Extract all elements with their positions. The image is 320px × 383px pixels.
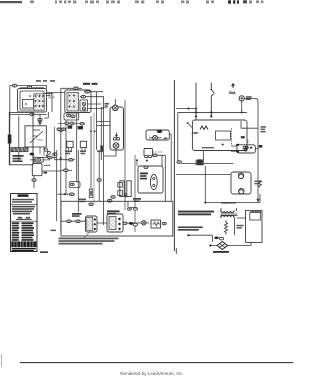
lock unit box bbox=[246, 210, 263, 242]
relay aux marks bbox=[44, 165, 50, 174]
legend title bbox=[18, 194, 29, 196]
oven box inner label bbox=[13, 155, 24, 162]
left return wire bbox=[177, 112, 179, 161]
note pointer line bbox=[84, 233, 89, 238]
wire between switches bbox=[47, 92, 65, 94]
terminal P26 bbox=[123, 222, 166, 226]
sensor drop wire bbox=[196, 116, 204, 164]
junction J10 bbox=[209, 244, 211, 246]
motor M3 armature bbox=[150, 174, 157, 189]
harness wire 3 bbox=[65, 120, 67, 194]
neutral bottom wire bbox=[189, 235, 213, 242]
bake circuit wire bbox=[241, 121, 258, 128]
terminal P3 on lower wire bbox=[10, 113, 47, 116]
fuse rating 30A bbox=[229, 84, 236, 95]
terminal P5 bbox=[84, 90, 103, 93]
switch S2 contacts bbox=[69, 95, 75, 108]
fuse F1 bbox=[89, 189, 92, 197]
resistor R2 label bbox=[237, 225, 244, 229]
harness wire 2 bbox=[59, 88, 63, 232]
crossover wire B bbox=[61, 169, 72, 171]
terminal P2 bbox=[28, 86, 32, 88]
junction J9 bbox=[187, 234, 189, 236]
terminal P21 bbox=[153, 154, 157, 157]
terminal P7 bbox=[67, 114, 71, 117]
harness wire 10 bbox=[102, 96, 104, 225]
legend symbols row bbox=[16, 217, 32, 219]
crossover wire A bbox=[55, 159, 75, 161]
breaker contact bbox=[210, 89, 214, 94]
lamp labels bbox=[255, 181, 261, 185]
convection motor box bbox=[136, 134, 171, 201]
door switch block 1 bbox=[86, 216, 98, 232]
wiring note row 1 bbox=[178, 211, 214, 213]
terminal P25 bbox=[76, 220, 80, 223]
junction J6 bbox=[210, 115, 212, 117]
wiring note row 2 bbox=[178, 213, 211, 215]
thermo switch block bbox=[69, 182, 80, 188]
divider lower tip bbox=[175, 248, 177, 254]
main bus wire bbox=[178, 111, 247, 113]
terminal row small bbox=[128, 208, 138, 210]
wire to S2 bbox=[44, 94, 52, 113]
surface unit switch S1 bbox=[18, 89, 47, 113]
timer leads bbox=[103, 99, 116, 156]
terminal P12 bbox=[32, 179, 36, 182]
control label row bbox=[202, 147, 214, 148]
thermal limiter on left edge bbox=[8, 135, 12, 144]
door switch block 2 bbox=[107, 214, 123, 232]
terminal P10 bbox=[39, 121, 41, 123]
lock arrow bbox=[125, 193, 127, 197]
svg-text:INTERLOCK: INTERLOCK bbox=[221, 201, 236, 205]
mid label b bbox=[80, 151, 86, 155]
oven lamp box bbox=[146, 130, 169, 140]
relay K1 box bbox=[35, 158, 43, 163]
surface switch pilot cluster bbox=[57, 122, 85, 130]
wire thermostat drop bbox=[40, 147, 44, 156]
mid label d bbox=[79, 199, 87, 203]
broil element box bbox=[237, 145, 255, 153]
oven lamp assembly bbox=[231, 172, 251, 194]
harness wire 8 bbox=[98, 150, 100, 201]
harness wire 12 bbox=[134, 155, 136, 232]
terminal P18 bbox=[89, 203, 93, 206]
wire to timer top bbox=[97, 108, 111, 126]
element label bbox=[241, 136, 263, 147]
label LEFT REAR bbox=[48, 94, 55, 100]
element lead wires bbox=[231, 140, 258, 152]
junction J1 bbox=[64, 193, 66, 195]
right L2 supply wire bbox=[211, 83, 214, 117]
terminal P1 bbox=[12, 84, 17, 87]
thermal note rows bbox=[178, 226, 203, 230]
wire row above S1 bbox=[20, 86, 44, 88]
tm number bbox=[40, 251, 48, 253]
lock coil box bbox=[250, 211, 261, 220]
mid label c bbox=[97, 151, 104, 153]
legend footer rows bbox=[12, 248, 36, 252]
splice blob bbox=[100, 146, 103, 153]
wire top right corner bbox=[153, 155, 166, 201]
control coil symbol bbox=[192, 126, 209, 135]
terminal P13 bbox=[37, 159, 41, 161]
relay K2 box bbox=[32, 164, 42, 176]
interlock label bbox=[221, 201, 236, 205]
harness wire 9 bbox=[100, 107, 102, 160]
door label dark bbox=[107, 210, 120, 214]
harness shadow band bbox=[93, 113, 95, 205]
door latch switch bbox=[144, 149, 163, 158]
door sw label bbox=[72, 213, 82, 217]
element corner terminals bbox=[236, 144, 239, 153]
relay wiring bbox=[30, 155, 50, 188]
timer label bbox=[105, 103, 110, 107]
oven thermostat box bbox=[25, 126, 46, 147]
terminal P17 bbox=[70, 193, 74, 196]
legend wire code table bbox=[12, 222, 34, 241]
switch S1 contact grid bbox=[25, 95, 44, 107]
terminal P20 bbox=[157, 130, 162, 133]
junction J2 bbox=[146, 160, 148, 162]
junction J4 bbox=[210, 111, 212, 113]
harness wire 5 bbox=[77, 150, 79, 212]
terminal P19 bbox=[97, 179, 101, 182]
junction J11 bbox=[90, 131, 96, 133]
wire S2 to harness row2 bbox=[88, 108, 104, 110]
relay sub box bbox=[216, 128, 232, 145]
lamp L1 bbox=[153, 135, 158, 140]
heater element box bbox=[151, 220, 161, 228]
transformer T1 secondary bbox=[220, 216, 235, 218]
terminal P14 bbox=[53, 153, 57, 156]
neutral stub wire bbox=[176, 108, 197, 110]
pilot contact rect 2 bbox=[80, 141, 86, 150]
label above S2 bbox=[83, 83, 98, 85]
harness wire 11 bbox=[124, 100, 126, 210]
connector pair bbox=[214, 237, 223, 240]
switch S2 cam circles bbox=[82, 102, 85, 110]
terminal P4 bbox=[61, 87, 82, 90]
crossover wire C bbox=[58, 193, 76, 195]
top cropped text line bbox=[0, 0, 263, 3]
mid wire y174 bbox=[176, 173, 231, 175]
timer contact circles bbox=[113, 137, 119, 140]
terminal P28 bbox=[48, 156, 52, 159]
resistor R1 bbox=[258, 181, 261, 188]
page divider between schematics bbox=[173, 80, 175, 251]
terminal P9 bbox=[38, 118, 42, 121]
switch drop wire bbox=[205, 166, 260, 203]
legend intro lines bbox=[12, 199, 34, 203]
terminal P11 bbox=[30, 153, 35, 156]
bottom-left page edge bbox=[1, 354, 3, 367]
mid wire y163 bbox=[181, 162, 233, 164]
bottom note paragraph bbox=[59, 238, 119, 245]
wire S2 to harness row1 bbox=[88, 103, 102, 105]
terminal P8 bbox=[71, 115, 75, 118]
lamp leads bbox=[149, 134, 171, 138]
junction J5 bbox=[195, 115, 197, 117]
oven body outline box bbox=[9, 112, 33, 164]
legend divider 2 bbox=[11, 220, 38, 222]
bake label bbox=[261, 126, 267, 132]
lamp label bbox=[164, 138, 168, 140]
resistor R2 bbox=[224, 220, 227, 235]
footer rule bbox=[20, 362, 293, 364]
transformer T1 core bbox=[221, 214, 238, 215]
door assembly box bbox=[61, 201, 173, 236]
svg-text:30A: 30A bbox=[229, 90, 236, 95]
legend side note bbox=[51, 230, 57, 232]
label row above S1 bbox=[36, 80, 55, 82]
relay coil bar bbox=[11, 148, 28, 152]
junction block under S2 bbox=[64, 113, 79, 120]
wire relay to harness bbox=[36, 158, 61, 172]
lamp L4 bbox=[239, 189, 244, 194]
door plug connector bbox=[217, 242, 228, 250]
lamp L3 bbox=[238, 173, 243, 178]
legend paragraph bbox=[12, 206, 35, 215]
pilot contact rect 1 bbox=[67, 141, 73, 150]
node L1 feed wire bbox=[10, 86, 47, 165]
terminal P22 bbox=[111, 196, 115, 199]
motor label bbox=[140, 173, 148, 180]
mid label a bbox=[65, 151, 72, 155]
legend divider 1 bbox=[11, 203, 38, 205]
transformer leads bbox=[221, 208, 246, 235]
wire oven box to harness bbox=[33, 130, 40, 136]
transformer T1 primary bbox=[220, 211, 235, 213]
timer contact arrow bbox=[115, 133, 117, 137]
relay blob bbox=[197, 159, 203, 165]
door plug leads bbox=[212, 242, 252, 245]
svg-text:AMP: AMP bbox=[192, 131, 199, 135]
wire into thermostat bbox=[40, 112, 48, 126]
fuse label bbox=[246, 96, 252, 100]
lamp L2 bbox=[142, 221, 146, 225]
terminal P6 bbox=[80, 95, 103, 98]
terminal P16 bbox=[64, 169, 68, 172]
pointer diagonal bbox=[187, 122, 193, 128]
terminal P27 bbox=[177, 161, 181, 164]
terminal P15 bbox=[69, 158, 73, 161]
door lock cam switch bbox=[118, 181, 131, 197]
harness wire 1 bbox=[54, 127, 56, 221]
down arrow bbox=[257, 198, 260, 202]
door plug label bbox=[213, 251, 229, 253]
terminal P23 bbox=[108, 199, 112, 202]
harness wire 6 bbox=[90, 116, 92, 189]
svg-text:OVEN: OVEN bbox=[37, 140, 44, 142]
harness wire 7 bbox=[96, 92, 98, 150]
junction J3 bbox=[195, 111, 197, 113]
legend barcode band bbox=[11, 241, 36, 247]
junction J7 bbox=[222, 144, 224, 146]
clock timer box bbox=[110, 107, 124, 150]
svg-text:REAR: REAR bbox=[48, 96, 55, 99]
surface unit switch S2 bbox=[65, 90, 91, 113]
junction J8 bbox=[204, 202, 206, 204]
terminal P24 bbox=[61, 220, 86, 223]
lock switch label bbox=[133, 198, 141, 202]
legend box bbox=[11, 194, 38, 252]
svg-text:Rendered by LeadVenture, Inc.: Rendered by LeadVenture, Inc. bbox=[120, 371, 184, 376]
bus drop right bbox=[241, 98, 258, 202]
pilot circles bbox=[45, 148, 51, 157]
fuse FH1 bbox=[239, 96, 244, 101]
timer motor M2 bbox=[113, 143, 119, 149]
right L1 supply wire bbox=[195, 83, 197, 117]
timer motor M1 bbox=[113, 105, 119, 111]
harness wire 4 bbox=[76, 113, 78, 182]
control board box bbox=[192, 120, 247, 151]
door wiring row bbox=[97, 201, 151, 223]
